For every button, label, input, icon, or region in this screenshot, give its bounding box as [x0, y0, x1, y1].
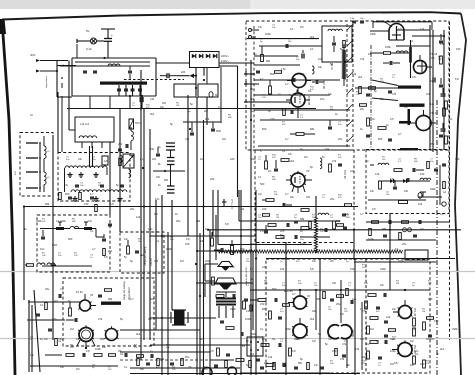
wire lamp left — [77, 40, 91, 42]
coil box stubs — [81, 142, 83, 148]
svg-text:1M: 1M — [368, 52, 372, 56]
wire into tube V1 — [254, 64, 300, 66]
wire rect top vert — [195, 68, 197, 85]
bl parts extra — [98, 294, 102, 296]
channel coils top — [56, 227, 64, 230]
svg-text:120: 120 — [262, 266, 267, 269]
svg-text:2k2: 2k2 — [440, 347, 445, 351]
wire horiz y110 top — [254, 109, 350, 111]
wire osc row — [259, 45, 322, 47]
IF coil 1 — [320, 158, 322, 162]
choke L5 — [409, 47, 412, 62]
bl small parts — [48, 328, 52, 330]
coil box bumps — [79, 136, 83, 138]
wire tr y30 — [396, 29, 430, 31]
svg-text:68k: 68k — [412, 147, 417, 151]
ratio det cap stack mid — [167, 157, 175, 159]
wire rectifier down 1 — [195, 68, 197, 96]
IF row2 coil — [318, 213, 322, 215]
svg-text:68k: 68k — [300, 217, 305, 221]
wire stub left — [61, 83, 63, 88]
antenna terminal — [249, 29, 252, 32]
lm parts 1 — [59, 193, 62, 200]
svg-text:6,8: 6,8 — [440, 42, 444, 46]
audio parts 3 — [220, 320, 224, 322]
svg-text:0,1: 0,1 — [282, 150, 286, 153]
channel box left parts — [41, 236, 45, 238]
svg-text:PD 24: PD 24 — [430, 52, 438, 56]
rc cap b — [439, 84, 443, 86]
wire x58 down — [57, 92, 59, 153]
svg-text:47p: 47p — [186, 238, 191, 241]
svg-text:0,1: 0,1 — [272, 337, 276, 341]
svg-text:1M: 1M — [76, 368, 79, 371]
smoothing cap C5 — [166, 73, 168, 78]
svg-text:0,1: 0,1 — [90, 229, 94, 233]
wire vert x390 — [389, 213, 391, 290]
wire long horizontal under tuner — [67, 108, 316, 110]
tube pin ticks — [306, 306, 308, 307]
bar B3 — [400, 148, 418, 150]
bl bottom wires — [30, 365, 118, 367]
svg-text:PCC 88: PCC 88 — [322, 80, 325, 89]
wire tr x444 — [443, 30, 445, 150]
wire horiz y330 — [120, 329, 200, 331]
svg-text:12k: 12k — [352, 297, 357, 301]
svg-text:1k5: 1k5 — [162, 102, 167, 105]
svg-text:10n: 10n — [280, 229, 285, 233]
svg-text:68k: 68k — [160, 357, 165, 361]
wire tuner internal 1 — [254, 79, 340, 81]
wire bus vertical mid-right — [240, 190, 242, 375]
svg-text:1M: 1M — [70, 327, 74, 331]
svg-text:68k: 68k — [45, 202, 50, 206]
svg-text:12k: 12k — [386, 315, 391, 319]
tube V9 — [106, 329, 118, 341]
svg-text:1M: 1M — [200, 157, 204, 161]
svg-text:12k: 12k — [430, 102, 435, 106]
svg-text:VHF-UHF: VHF-UHF — [230, 199, 233, 210]
connector block — [140, 97, 144, 102]
antenna input wires — [40, 60, 68, 62]
svg-text:6,8: 6,8 — [412, 327, 416, 331]
wire corner a — [212, 190, 214, 236]
rc res a — [440, 56, 443, 64]
svg-text:220: 220 — [262, 207, 267, 211]
IF res 2 — [281, 159, 289, 162]
mid parts extra — [263, 214, 270, 217]
parts right of D3 — [345, 204, 352, 207]
dashed inner FM box — [253, 26, 255, 148]
svg-text:10n: 10n — [148, 227, 153, 231]
svg-text:47p: 47p — [156, 366, 161, 369]
audio parts 2 — [216, 295, 224, 298]
svg-text:25u: 25u — [330, 197, 335, 201]
svg-text:47p: 47p — [260, 230, 265, 233]
wire vert x430t — [429, 25, 431, 150]
antenna input arrows — [36, 59, 40, 62]
svg-text:150: 150 — [420, 172, 425, 176]
svg-text:265: 265 — [164, 179, 169, 182]
br parts mid — [370, 317, 378, 320]
extra dots — [196, 250, 198, 252]
br parts extra2 — [389, 329, 396, 332]
mains transformer primary box — [174, 84, 196, 97]
tube V1 triode PCC88 upper — [291, 93, 305, 107]
ratio det cap stack 2 — [167, 185, 175, 187]
wire horizontal right B+ — [208, 229, 461, 231]
svg-text:10n: 10n — [320, 97, 325, 101]
wire left col 2 — [28, 300, 30, 372]
svg-text:6,8: 6,8 — [440, 212, 444, 216]
svg-text:L13 L14: L13 L14 — [80, 123, 90, 126]
dashed box channel coils — [37, 215, 110, 272]
T1 windings — [170, 312, 172, 323]
svg-text:220: 220 — [205, 259, 210, 263]
rc left parts — [359, 87, 362, 94]
coil L6 — [396, 51, 400, 53]
sound row parts — [372, 221, 379, 224]
svg-text:10n: 10n — [430, 80, 435, 83]
page border right — [455, 14, 466, 375]
svg-text:2k2: 2k2 — [150, 112, 155, 116]
svg-text:100k: 100k — [285, 327, 291, 331]
bc parts extra2 — [323, 292, 326, 299]
br parts low — [370, 341, 378, 344]
svg-text:1M: 1M — [426, 363, 429, 365]
svg-text:0,1: 0,1 — [148, 317, 152, 321]
svg-text:0,1: 0,1 — [410, 39, 414, 43]
svg-text:1M: 1M — [366, 342, 370, 346]
tube V2 triode PCC88 lower — [297, 140, 299, 142]
svg-text:218: 218 — [150, 98, 155, 101]
svg-text:500: 500 — [150, 297, 155, 301]
hatch separator — [346, 24, 348, 148]
dashed divider frame osc — [365, 259, 367, 373]
svg-text:25u: 25u — [176, 219, 181, 223]
ratio det wire — [153, 170, 185, 172]
svg-text:1M: 1M — [250, 111, 253, 113]
svg-text:10n: 10n — [312, 260, 317, 263]
svg-text:1M: 1M — [222, 137, 226, 141]
wire vert x433 — [432, 30, 434, 152]
svg-text:1M: 1M — [304, 156, 307, 159]
tube V4 PY81 — [414, 61, 427, 74]
svg-text:4,7: 4,7 — [285, 82, 289, 86]
svg-text:68k: 68k — [108, 297, 113, 301]
svg-text:10n: 10n — [124, 238, 129, 241]
wire bus vertical left-center — [140, 70, 142, 360]
svg-text:6,8: 6,8 — [310, 267, 314, 271]
svg-text:10n: 10n — [430, 337, 435, 341]
svg-text:25u: 25u — [250, 88, 255, 91]
audio pot — [231, 246, 234, 255]
svg-text:0,1: 0,1 — [140, 157, 144, 161]
svg-text:150: 150 — [260, 302, 265, 306]
diag wires tr — [372, 80, 398, 86]
svg-text:0M3: 0M3 — [216, 130, 221, 133]
svg-text:10n: 10n — [60, 366, 65, 369]
delay line parts — [127, 246, 130, 254]
br parts top — [368, 294, 376, 297]
svg-text:1M: 1M — [370, 327, 374, 331]
IF cap 2 — [338, 163, 342, 165]
wire rectifier down 2 — [203, 68, 205, 76]
svg-text:100k: 100k — [368, 237, 374, 241]
scan artifact line 1 — [0, 271, 475, 273]
tuner left wires — [56, 61, 58, 98]
svg-text:0,1A: 0,1A — [86, 47, 92, 51]
svg-text:PCL 85: PCL 85 — [413, 308, 416, 317]
bar B2 — [400, 104, 425, 107]
IF twisted pair — [89, 146, 91, 167]
svg-text:2k2: 2k2 — [358, 75, 363, 79]
svg-text:0,5: 0,5 — [210, 349, 214, 353]
speaker LS2 — [215, 278, 236, 284]
svg-text:M3: M3 — [215, 94, 219, 97]
tuner box T outline — [72, 57, 156, 59]
audio res 1 — [211, 238, 214, 246]
bl cap 1 — [74, 318, 76, 322]
svg-text:120: 120 — [332, 282, 337, 285]
tube V5 PY88 — [416, 116, 431, 131]
sound res R7 — [394, 169, 402, 172]
wire x347 — [346, 338, 348, 368]
svg-text:6,8: 6,8 — [455, 77, 459, 81]
IF res 1 — [265, 161, 268, 169]
svg-text:330k: 330k — [452, 327, 458, 331]
svg-text:25u: 25u — [290, 196, 295, 199]
svg-text:1M: 1M — [276, 217, 279, 219]
heater chain horizontal — [218, 250, 403, 253]
svg-text:25u: 25u — [360, 108, 365, 111]
wire vert x216 — [215, 215, 217, 260]
bl wires — [27, 319, 65, 321]
svg-text:150: 150 — [434, 319, 439, 323]
dashed box delay line — [120, 232, 164, 273]
svg-text:12k: 12k — [240, 207, 245, 211]
boost cap — [432, 78, 434, 83]
cap C8 — [328, 126, 332, 128]
svg-text:10n: 10n — [155, 197, 160, 201]
page border left — [2, 20, 15, 375]
svg-text:47p: 47p — [258, 193, 263, 196]
junction rectifier — [195, 75, 197, 77]
junction dots — [140, 107, 142, 109]
svg-text:500: 500 — [336, 219, 341, 223]
bl res 1 — [69, 308, 72, 316]
svg-text:0,1: 0,1 — [268, 169, 272, 173]
bc parts row — [261, 344, 269, 347]
dashed box audio/power bottom — [266, 259, 430, 373]
svg-text:100k: 100k — [250, 332, 256, 336]
wire left col 1 — [23, 207, 25, 301]
svg-text:1k5: 1k5 — [152, 158, 157, 161]
svg-text:220: 220 — [210, 177, 215, 181]
speaker wires — [205, 263, 218, 265]
svg-text:10n: 10n — [414, 349, 419, 353]
sound wires — [368, 199, 426, 201]
scanner top strip — [0, 0, 250, 9]
svg-text:0,5: 0,5 — [250, 267, 254, 271]
V6 pins — [292, 186, 294, 192]
svg-text:V2: V2 — [306, 169, 310, 173]
wire tr y88 — [355, 87, 398, 89]
caps on dashed top — [352, 20, 356, 22]
VHF-UHF jack — [223, 199, 225, 206]
svg-text:680: 680 — [296, 338, 301, 341]
output transformer T2 — [216, 298, 236, 300]
tuner cap C2 — [128, 70, 132, 72]
wire horiz y95 top — [254, 94, 330, 96]
wire vert x210 — [209, 230, 211, 375]
svg-text:330k: 330k — [166, 247, 172, 251]
svg-text:25u: 25u — [185, 355, 190, 359]
svg-text:150: 150 — [455, 157, 460, 161]
svg-text:330k: 330k — [230, 307, 236, 311]
diode D1 — [192, 54, 196, 58]
svg-text:0,1: 0,1 — [290, 27, 294, 31]
wire vert x53 — [52, 135, 54, 340]
channel box right parts — [102, 238, 106, 240]
svg-text:100k: 100k — [60, 219, 66, 223]
svg-text:0,5: 0,5 — [420, 227, 424, 231]
svg-text:330k: 330k — [250, 242, 256, 246]
cathode bar V5 — [399, 121, 411, 124]
det coupling cap — [190, 132, 194, 134]
tube V14 — [398, 343, 412, 357]
svg-text:10n: 10n — [230, 265, 235, 269]
svg-text:330k: 330k — [430, 187, 436, 191]
dashed wire y79 — [124, 79, 184, 81]
svg-text:100k: 100k — [385, 45, 391, 49]
tube V8 double — [79, 328, 93, 342]
wire vert x286 — [285, 242, 287, 375]
svg-text:12k: 12k — [136, 215, 141, 219]
sound res R9 — [399, 201, 408, 204]
svg-text:120: 120 — [404, 190, 409, 193]
trimmer box — [123, 154, 134, 168]
svg-text:0,5: 0,5 — [390, 117, 394, 121]
svg-text:680: 680 — [266, 60, 271, 63]
svg-text:PCC 88: PCC 88 — [307, 96, 311, 106]
br wires — [361, 302, 363, 370]
tube V12 right half — [341, 325, 352, 339]
svg-text:4,7: 4,7 — [360, 212, 364, 216]
scan artifact line 2 — [0, 338, 475, 340]
wire horiz y240r — [366, 239, 436, 241]
V1 cathode parts — [283, 109, 286, 116]
tuner stub 1 — [89, 96, 91, 109]
audio cap 1 — [220, 248, 222, 252]
svg-text:120: 120 — [360, 338, 365, 341]
lm vert parts — [118, 148, 122, 150]
svg-text:0,5: 0,5 — [372, 207, 376, 211]
svg-text:0,5: 0,5 — [154, 212, 158, 216]
IF res 3 — [329, 164, 332, 172]
wire c y56 — [254, 55, 298, 57]
svg-text:150: 150 — [150, 148, 155, 151]
dashed box tuner/IF top-right — [246, 21, 449, 150]
br res col — [413, 318, 416, 326]
svg-text:47k: 47k — [392, 92, 397, 96]
diode D4 — [213, 54, 217, 58]
IF bottom row — [276, 236, 284, 239]
channel box wires — [40, 227, 96, 229]
sound cap2 — [393, 186, 397, 188]
wire left diag — [34, 290, 40, 372]
svg-text:2k2: 2k2 — [136, 332, 141, 336]
svg-text:68k: 68k — [250, 72, 255, 76]
svg-text:150: 150 — [368, 249, 373, 253]
svg-text:Lange der Leitung: Lange der Leitung — [123, 281, 126, 300]
osc coil L2 — [328, 29, 332, 31]
svg-text:2k2: 2k2 — [290, 159, 295, 163]
res near V10 — [283, 304, 290, 307]
svg-text:25u: 25u — [380, 97, 385, 101]
res R6 — [384, 52, 391, 55]
rc parts extra — [442, 163, 446, 165]
wire vert x120 — [119, 109, 121, 233]
wire x341 — [340, 280, 342, 323]
UHF line coil — [342, 50, 346, 79]
svg-text:10n: 10n — [288, 153, 293, 156]
bottom row parts 1 — [137, 359, 140, 366]
IF row stubs — [64, 168, 66, 192]
svg-text:160: 160 — [156, 176, 161, 179]
svg-text:4,7: 4,7 — [398, 132, 402, 136]
svg-text:2k2: 2k2 — [118, 142, 123, 146]
svg-text:4,7: 4,7 — [130, 297, 134, 301]
oscillator box — [322, 26, 352, 62]
svg-text:220: 220 — [300, 72, 305, 76]
svg-text:10n: 10n — [44, 338, 49, 341]
selenium diode arrow — [190, 74, 195, 79]
svg-text:1M: 1M — [438, 59, 441, 61]
wire tr y36 — [412, 35, 444, 37]
svg-text:12k: 12k — [268, 355, 273, 359]
ferrite bar trimmers — [118, 85, 120, 96]
wire vert x110 — [109, 142, 111, 215]
svg-text:680: 680 — [140, 368, 145, 371]
svg-text:68k: 68k — [196, 219, 201, 223]
svg-text:330k: 330k — [380, 267, 386, 271]
svg-text:47k: 47k — [352, 72, 357, 76]
svg-text:1M: 1M — [300, 26, 303, 29]
svg-text:10n: 10n — [380, 284, 385, 287]
cap row2 tr — [389, 61, 391, 65]
svg-text:+: + — [111, 34, 113, 38]
svg-text:10n: 10n — [40, 247, 45, 251]
svg-text:500: 500 — [260, 182, 265, 186]
svg-text:500: 500 — [65, 192, 70, 196]
svg-text:100k: 100k — [265, 32, 271, 36]
svg-text:120: 120 — [306, 196, 311, 199]
svg-text:10n: 10n — [410, 340, 415, 343]
svg-text:12k: 12k — [420, 27, 425, 31]
IF coil chain lower — [71, 190, 75, 192]
cap 0M3 — [211, 128, 215, 130]
svg-text:6V: 6V — [86, 29, 90, 33]
svg-text:120: 120 — [104, 160, 109, 163]
svg-text:4,7: 4,7 — [90, 192, 94, 196]
svg-text:500: 500 — [262, 127, 267, 131]
tube V7 — [80, 300, 91, 311]
bc bottom parts — [256, 358, 260, 360]
svg-text:680: 680 — [298, 362, 303, 365]
IF row3 res — [268, 224, 276, 227]
bar bottom-left — [101, 302, 121, 305]
